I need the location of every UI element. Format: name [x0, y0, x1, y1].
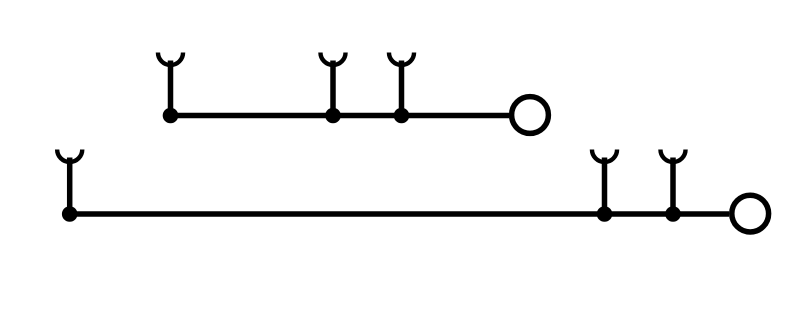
connector circle (bottom rail, right end)	[732, 195, 769, 232]
terminal clamp 1.1 (top rail, left)	[158, 53, 183, 116]
junction dot (top rail, x=170.5)	[163, 108, 179, 124]
wire: top rail bus bar	[171, 113, 510, 119]
junction dot (top rail, x=401.5)	[394, 108, 410, 124]
terminal clamp 2.1 (bottom rail, left)	[57, 150, 82, 215]
terminal clamp 2.2 (bottom rail, middle)	[592, 150, 617, 215]
junction dot (top rail, x=333)	[325, 108, 341, 124]
wire: bottom rail bus bar	[70, 211, 730, 217]
junction dot (bottom rail, x=673)	[665, 206, 681, 222]
terminal clamp 1.3 (top rail, right)	[389, 53, 414, 116]
terminal clamp 2.3 (bottom rail, right)	[660, 150, 685, 215]
junction dot (bottom rail, x=69.7)	[62, 206, 78, 222]
junction dot (bottom rail, x=604.5)	[597, 206, 613, 222]
connector circle (top rail, right end)	[512, 97, 549, 134]
terminal clamp 1.2 (top rail, middle)	[320, 53, 345, 116]
